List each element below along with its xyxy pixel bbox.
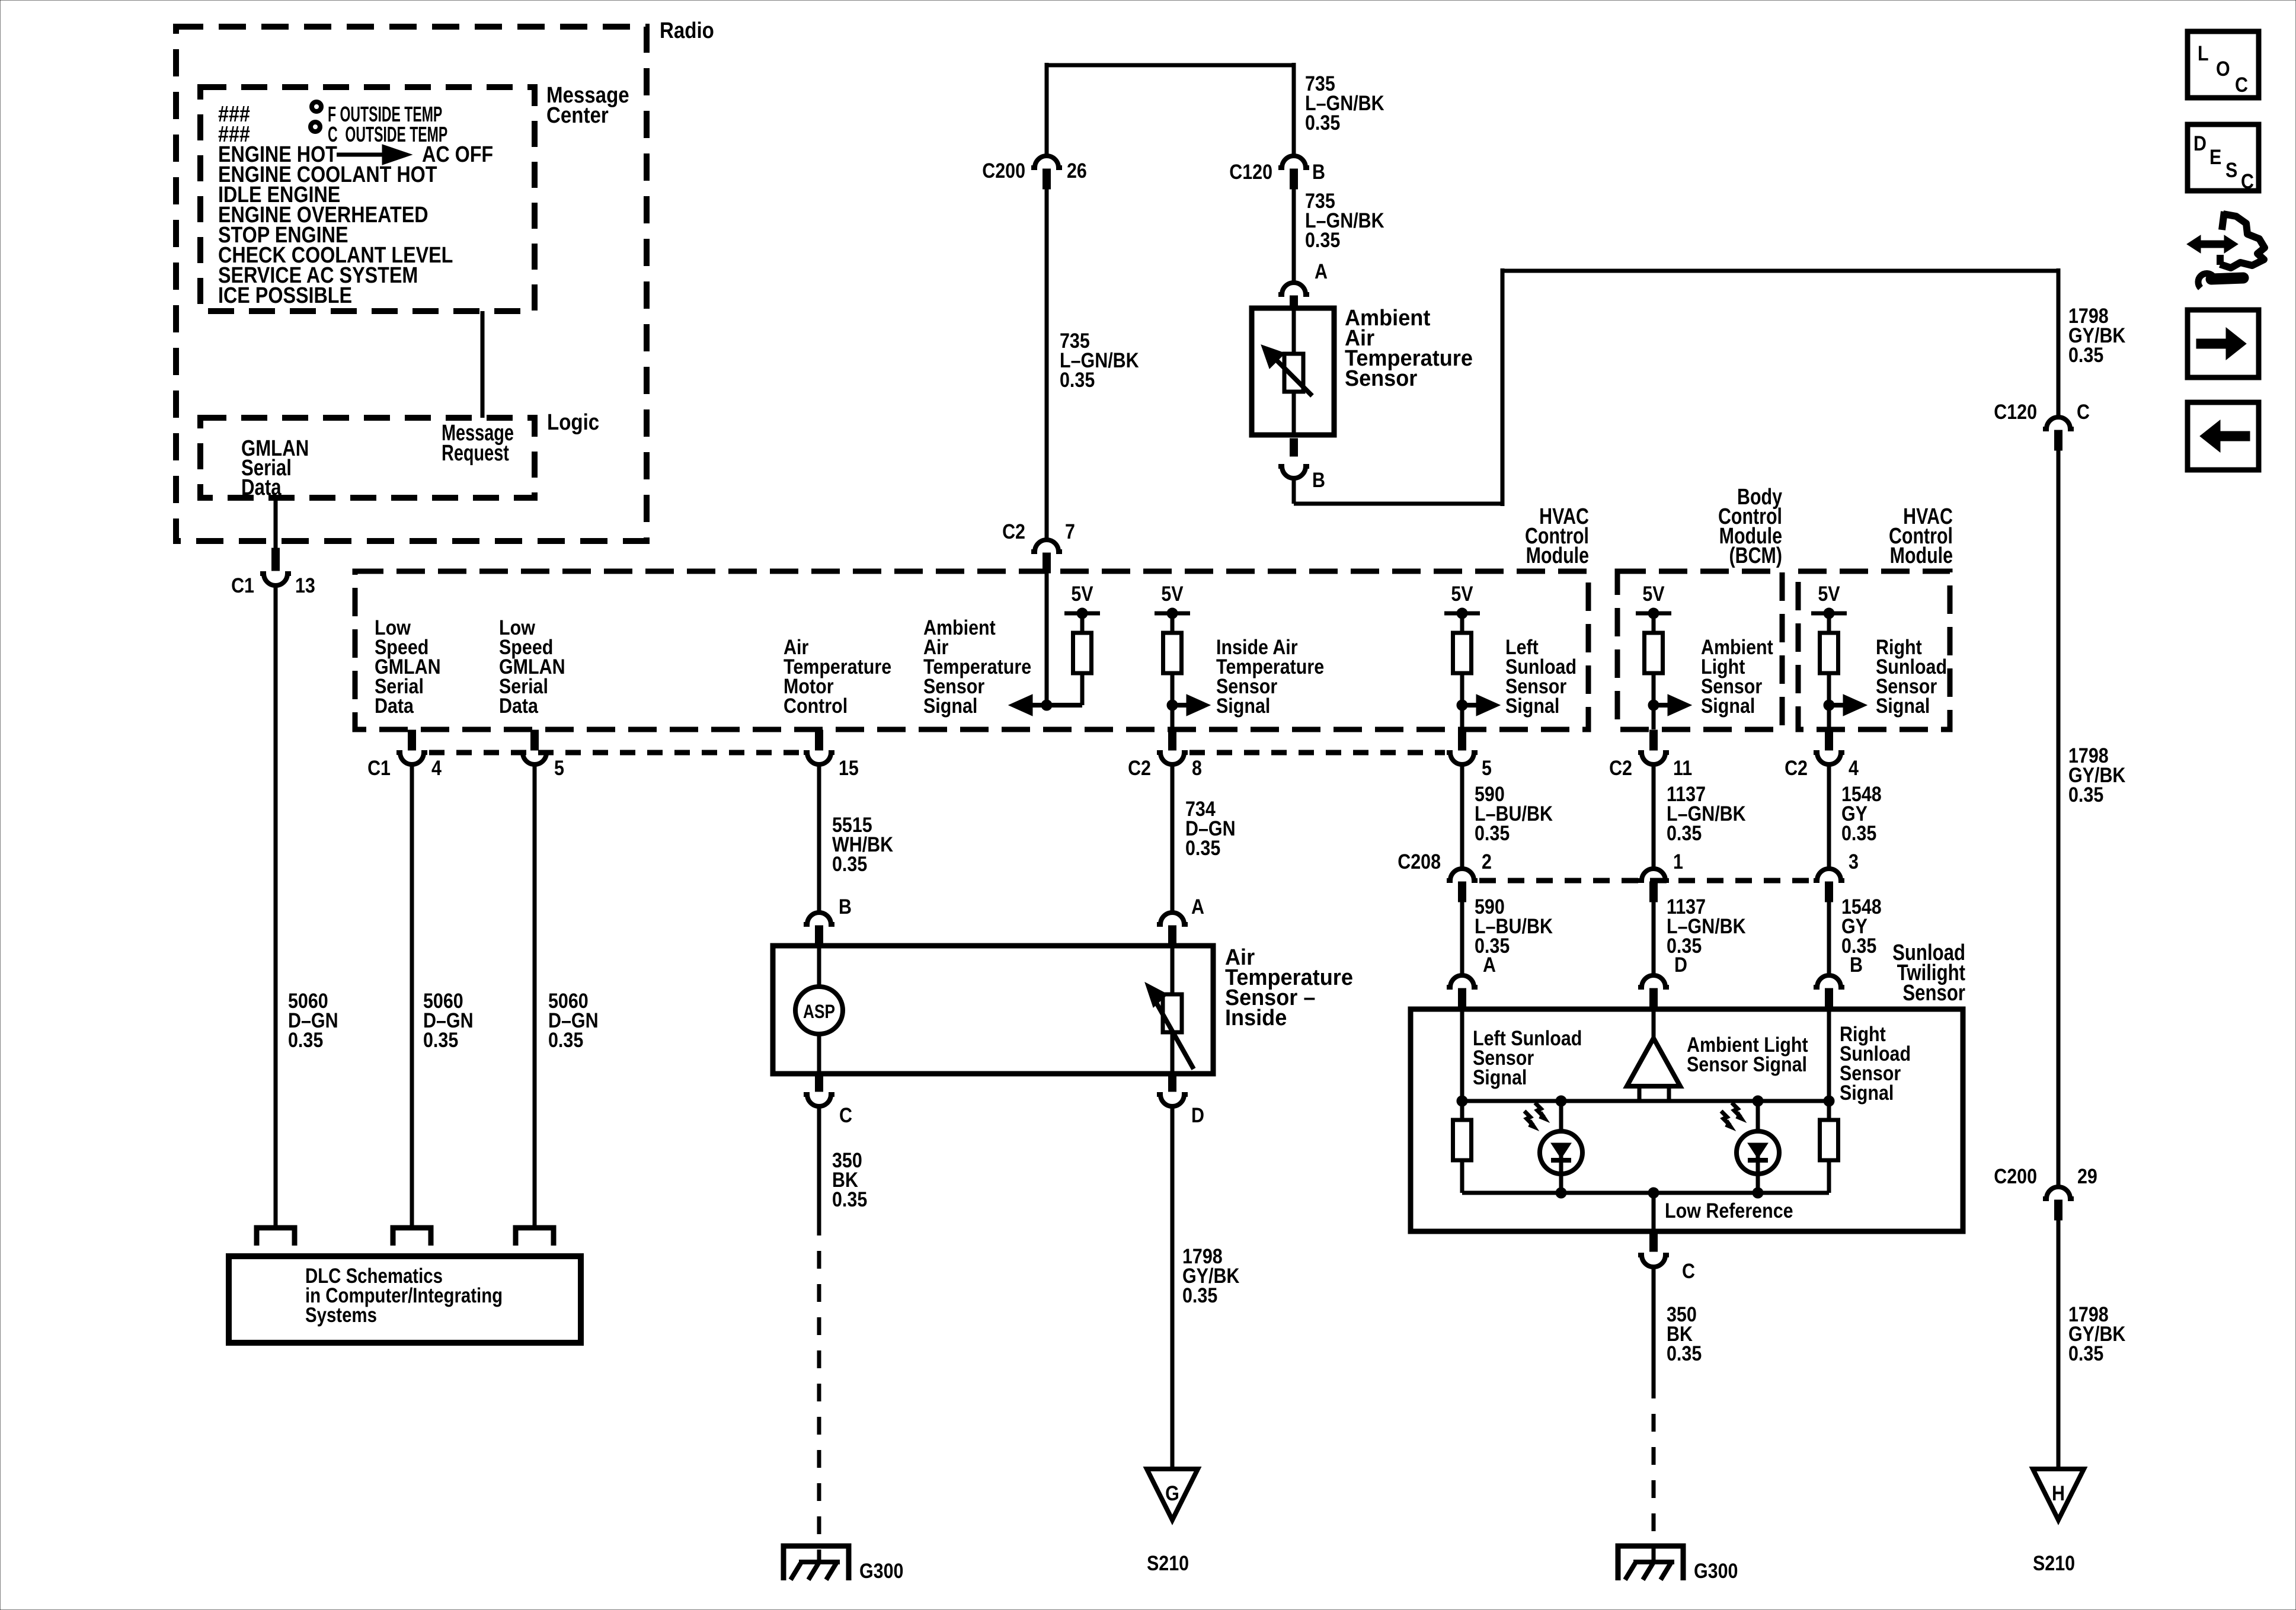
ASP motor wire top xyxy=(817,946,821,987)
wire C208-1 down xyxy=(1652,902,1656,974)
wire C1-5 down xyxy=(533,766,537,1228)
svg-text:C200: C200 xyxy=(1994,1164,2037,1188)
icon DESC box xyxy=(2188,124,2259,191)
wire C120-B to sensor A xyxy=(1292,189,1296,281)
amplifier triangle xyxy=(1652,1009,1656,1042)
R5 output arrow right xyxy=(1824,700,1834,710)
connector sunload pin A xyxy=(1447,975,1478,987)
svg-text:0.35: 0.35 xyxy=(1667,821,1702,844)
svg-text:0.35: 0.35 xyxy=(2068,783,2103,806)
HVAC control module box xyxy=(355,571,1588,729)
svg-text:B: B xyxy=(1312,160,1325,183)
connector inside sensor pin A xyxy=(1157,913,1188,924)
connector inside sensor pin C xyxy=(816,1074,823,1092)
connector sensor pin B xyxy=(1290,438,1298,456)
svg-text:G300: G300 xyxy=(1694,1559,1738,1582)
svg-text:B: B xyxy=(1312,468,1325,491)
svg-text:5V: 5V xyxy=(1818,582,1840,605)
svg-text:D: D xyxy=(1674,953,1687,976)
svg-text:Logic: Logic xyxy=(547,409,599,435)
svg-text:C: C xyxy=(2077,400,2090,423)
connector C1 pin 4 xyxy=(408,730,416,750)
connector C2 pin 8 xyxy=(1169,730,1176,750)
connector C120 pin B xyxy=(1278,156,1309,168)
svg-text:L: L xyxy=(2198,41,2209,65)
message center box xyxy=(200,87,535,311)
logic box xyxy=(200,418,535,498)
wire R3 to C2-5 xyxy=(1460,705,1464,729)
R4 output arrow right xyxy=(1648,700,1659,710)
air temperature sensor inside box xyxy=(773,946,1213,1074)
connector C120 pin C xyxy=(2043,417,2074,429)
wire R5 to C2-4 xyxy=(1827,705,1831,729)
wire C1-13 down xyxy=(274,587,278,1228)
radio module box xyxy=(176,27,647,541)
svg-text:Low Reference: Low Reference xyxy=(1665,1199,1793,1222)
harness dotted line C2 row xyxy=(1189,750,1445,756)
thermistor element xyxy=(1284,354,1303,392)
svg-text:C1: C1 xyxy=(367,756,391,779)
svg-text:C200: C200 xyxy=(982,159,1025,182)
wire D down to S210 G xyxy=(1171,1108,1175,1469)
svg-text:0.35: 0.35 xyxy=(832,1188,867,1211)
inside thermistor diagonal arrow xyxy=(1157,1004,1194,1069)
svg-text:Request: Request xyxy=(442,440,509,466)
connector sunload pin B xyxy=(1814,975,1844,987)
svg-text:5: 5 xyxy=(1482,756,1492,779)
wire R2 to C2-8 xyxy=(1171,705,1175,729)
connector C2 pin 7 xyxy=(1031,540,1062,552)
svg-text:Module: Module xyxy=(1890,543,1953,568)
ground G300 right xyxy=(1618,1546,1683,1580)
svg-text:C2: C2 xyxy=(1785,756,1808,779)
wire C1-4 down xyxy=(410,766,414,1228)
svg-text:Sensor Signal: Sensor Signal xyxy=(1687,1052,1807,1076)
inside sensor right wire xyxy=(1171,946,1175,996)
svg-text:G: G xyxy=(1165,1481,1179,1505)
left sunload resistor xyxy=(1460,1101,1464,1120)
wire C208-2 down xyxy=(1460,902,1464,974)
svg-text:26: 26 xyxy=(1067,159,1087,182)
svg-text:ICE POSSIBLE: ICE POSSIBLE xyxy=(218,283,352,308)
svg-text:0.35: 0.35 xyxy=(548,1028,583,1051)
connector C1 pin 5 xyxy=(531,730,539,750)
svg-text:C120: C120 xyxy=(1994,400,2037,423)
svg-text:Signal: Signal xyxy=(1473,1065,1527,1089)
icon right arrow box xyxy=(2188,310,2259,377)
svg-text:0.35: 0.35 xyxy=(1305,228,1340,251)
photodiode right xyxy=(1753,1096,1763,1106)
wire sunload C solid xyxy=(1652,1268,1656,1381)
wire C208-3 down xyxy=(1827,902,1831,974)
ASP motor circle xyxy=(795,987,843,1034)
wire right 1798 down to C120-C xyxy=(2057,268,2061,416)
svg-text:0.35: 0.35 xyxy=(1667,1342,1702,1365)
photodiode left xyxy=(1556,1096,1566,1106)
svg-text:4: 4 xyxy=(431,756,442,779)
connector C208 pin 1 xyxy=(1638,869,1669,881)
harness dotted line C1 row xyxy=(429,750,802,756)
wire message center to logic xyxy=(481,311,485,418)
svg-text:D: D xyxy=(1191,1103,1204,1126)
svg-text:0.35: 0.35 xyxy=(2068,343,2103,366)
svg-text:11: 11 xyxy=(1673,756,1692,779)
icon diagnostic arrow xyxy=(2198,241,2227,248)
svg-text:C2: C2 xyxy=(1128,756,1151,779)
svg-text:Module: Module xyxy=(1526,543,1589,568)
svg-text:0.35: 0.35 xyxy=(1182,1283,1217,1307)
svg-text:C1: C1 xyxy=(231,574,254,597)
ground G300 left xyxy=(784,1546,849,1580)
svg-text:A: A xyxy=(1483,953,1496,976)
svg-text:AC OFF: AC OFF xyxy=(422,142,493,167)
svg-text:29: 29 xyxy=(2077,1164,2097,1188)
svg-text:(BCM): (BCM) xyxy=(1729,543,1782,568)
svg-text:0.35: 0.35 xyxy=(1185,836,1220,859)
wire sensor B to right loop xyxy=(1292,479,1296,504)
svg-text:B: B xyxy=(839,895,852,918)
wire C2-11 down xyxy=(1652,766,1656,868)
svg-text:S210: S210 xyxy=(2033,1551,2075,1574)
wire C to ground solid xyxy=(817,1108,821,1218)
svg-text:Sensor: Sensor xyxy=(1345,365,1417,391)
wire C200-26 to C2-7 xyxy=(1045,189,1049,539)
svg-text:1: 1 xyxy=(1673,850,1683,873)
svg-text:S210: S210 xyxy=(1147,1551,1189,1574)
sunload twilight sensor box xyxy=(1411,1009,1963,1231)
svg-text:Sensor: Sensor xyxy=(1902,981,1965,1006)
DLC schematics box xyxy=(229,1256,581,1343)
off-page triangle H S210 xyxy=(2033,1469,2084,1520)
svg-text:Inside: Inside xyxy=(1225,1004,1287,1030)
ambient air temperature sensor box xyxy=(1252,308,1334,435)
svg-text:H: H xyxy=(2052,1481,2065,1505)
degree symbol C xyxy=(311,122,320,132)
svg-text:Signal: Signal xyxy=(923,694,977,717)
svg-text:G300: G300 xyxy=(859,1559,903,1582)
svg-text:5V: 5V xyxy=(1642,582,1664,605)
svg-text:5V: 5V xyxy=(1451,582,1473,605)
sensor internal wire xyxy=(1292,308,1296,356)
sunload lower rail xyxy=(1462,1191,1829,1195)
wire C1-15 down xyxy=(817,766,821,911)
wire C2-7 into module xyxy=(1045,573,1049,705)
connector inside sensor pin B xyxy=(804,913,834,924)
connector C200 pin 26 xyxy=(1031,156,1062,168)
svg-text:Data: Data xyxy=(241,475,282,500)
connector sunload pin C xyxy=(1650,1231,1658,1251)
svg-text:7: 7 xyxy=(1065,520,1075,543)
svg-text:Systems: Systems xyxy=(305,1304,377,1327)
svg-text:Data: Data xyxy=(499,694,539,717)
svg-text:C208: C208 xyxy=(1398,850,1441,873)
svg-text:ASP: ASP xyxy=(803,1002,835,1023)
low reference wire xyxy=(1652,1193,1656,1231)
svg-text:Data: Data xyxy=(375,694,414,717)
connector C200 pin 29 xyxy=(2043,1187,2074,1199)
icon left arrow box xyxy=(2188,402,2259,470)
connector C208 pin 2 xyxy=(1447,869,1478,881)
wire C2-5 down xyxy=(1460,766,1464,868)
icon LOC box xyxy=(2188,31,2259,98)
svg-text:2: 2 xyxy=(1482,850,1492,873)
R1 output arrow left xyxy=(1041,700,1052,710)
R2 output arrow right xyxy=(1167,700,1178,710)
wire R4 to C2-11 xyxy=(1652,705,1656,729)
svg-text:B: B xyxy=(1850,953,1863,976)
svg-text:5V: 5V xyxy=(1161,582,1183,605)
ASP motor wire bottom xyxy=(817,1034,821,1074)
svg-text:Signal: Signal xyxy=(1876,694,1930,717)
svg-text:C: C xyxy=(1682,1259,1695,1282)
degree symbol F xyxy=(312,102,321,111)
svg-text:3: 3 xyxy=(1849,850,1859,873)
svg-text:0.35: 0.35 xyxy=(1475,821,1510,844)
wire logic to C1-13 xyxy=(274,498,278,548)
svg-text:Control: Control xyxy=(784,694,848,717)
right sunload resistor xyxy=(1827,1101,1831,1120)
icon wrench xyxy=(2198,273,2213,288)
sunload upper rail xyxy=(1462,1099,1829,1103)
svg-text:4: 4 xyxy=(1849,756,1859,779)
connector C208 pin 3 xyxy=(1814,869,1844,881)
svg-text:C: C xyxy=(2235,73,2248,96)
BCM box xyxy=(1617,571,1782,729)
junction dot low ref xyxy=(1648,1188,1659,1198)
connector C2 pin 4 xyxy=(1825,730,1833,750)
svg-text:C2: C2 xyxy=(1002,520,1025,543)
svg-text:15: 15 xyxy=(839,756,859,779)
inside thermistor element xyxy=(1163,994,1182,1032)
engine hot arrow xyxy=(337,153,385,157)
svg-text:O: O xyxy=(2216,57,2230,80)
svg-text:S: S xyxy=(2225,158,2237,181)
wire C200-29 to S210 H xyxy=(2057,1220,2061,1469)
svg-text:8: 8 xyxy=(1192,756,1202,779)
wire C120-C to C200-29 xyxy=(2057,450,2061,1186)
svg-text:0.35: 0.35 xyxy=(1060,368,1095,391)
svg-text:13: 13 xyxy=(295,574,315,597)
connector inside sensor pin D xyxy=(1169,1074,1176,1092)
DLC bracket 1 xyxy=(257,1228,295,1246)
connector C1 pin 15 xyxy=(816,730,823,750)
svg-text:C: C xyxy=(2241,169,2254,193)
svg-text:0.35: 0.35 xyxy=(288,1028,323,1051)
thermistor diagonal arrow xyxy=(1272,356,1312,396)
svg-text:0.35: 0.35 xyxy=(1305,111,1340,134)
off-page triangle G S210 xyxy=(1147,1469,1198,1520)
svg-text:5V: 5V xyxy=(1071,582,1093,605)
svg-text:C: C xyxy=(839,1103,852,1126)
DLC bracket 2 xyxy=(393,1228,431,1246)
wire sunload C dashed xyxy=(1652,1381,1656,1560)
connector sensor pin A xyxy=(1278,283,1309,295)
wire C2-8 down xyxy=(1171,766,1175,911)
svg-text:0.35: 0.35 xyxy=(423,1028,458,1051)
sunload A lead xyxy=(1460,1009,1464,1101)
svg-text:0.35: 0.35 xyxy=(1841,821,1876,844)
connector sunload pin D xyxy=(1638,975,1669,987)
wire C to ground dashed xyxy=(817,1218,821,1560)
svg-text:0.35: 0.35 xyxy=(832,852,867,875)
svg-text:Center: Center xyxy=(546,103,609,128)
R3 output arrow right xyxy=(1457,700,1467,710)
svg-text:A: A xyxy=(1191,895,1204,918)
svg-text:Radio: Radio xyxy=(660,18,714,43)
svg-text:Signal: Signal xyxy=(1505,694,1559,717)
HVAC control module box 2 xyxy=(1798,571,1950,729)
wire C2-4 down xyxy=(1827,766,1831,868)
svg-text:0.35: 0.35 xyxy=(2068,1342,2103,1365)
connector C2 pin 5 xyxy=(1459,730,1466,750)
DLC bracket 3 xyxy=(516,1228,554,1246)
wire 735 top horizontal xyxy=(1047,63,1294,68)
svg-text:A: A xyxy=(1315,260,1328,283)
svg-text:E: E xyxy=(2209,145,2221,168)
svg-text:Signal: Signal xyxy=(1701,694,1755,717)
svg-text:5: 5 xyxy=(554,756,564,779)
svg-text:Signal: Signal xyxy=(1840,1081,1894,1104)
svg-text:C120: C120 xyxy=(1229,160,1272,183)
svg-text:Signal: Signal xyxy=(1216,694,1270,717)
svg-text:D: D xyxy=(2193,132,2207,155)
harness dashed line C208 xyxy=(1479,878,1812,884)
svg-text:C2: C2 xyxy=(1609,756,1632,779)
connector C1 pin 13 xyxy=(272,548,280,571)
connector C2 pin 11 xyxy=(1650,730,1658,750)
sunload B lead xyxy=(1827,1009,1831,1101)
